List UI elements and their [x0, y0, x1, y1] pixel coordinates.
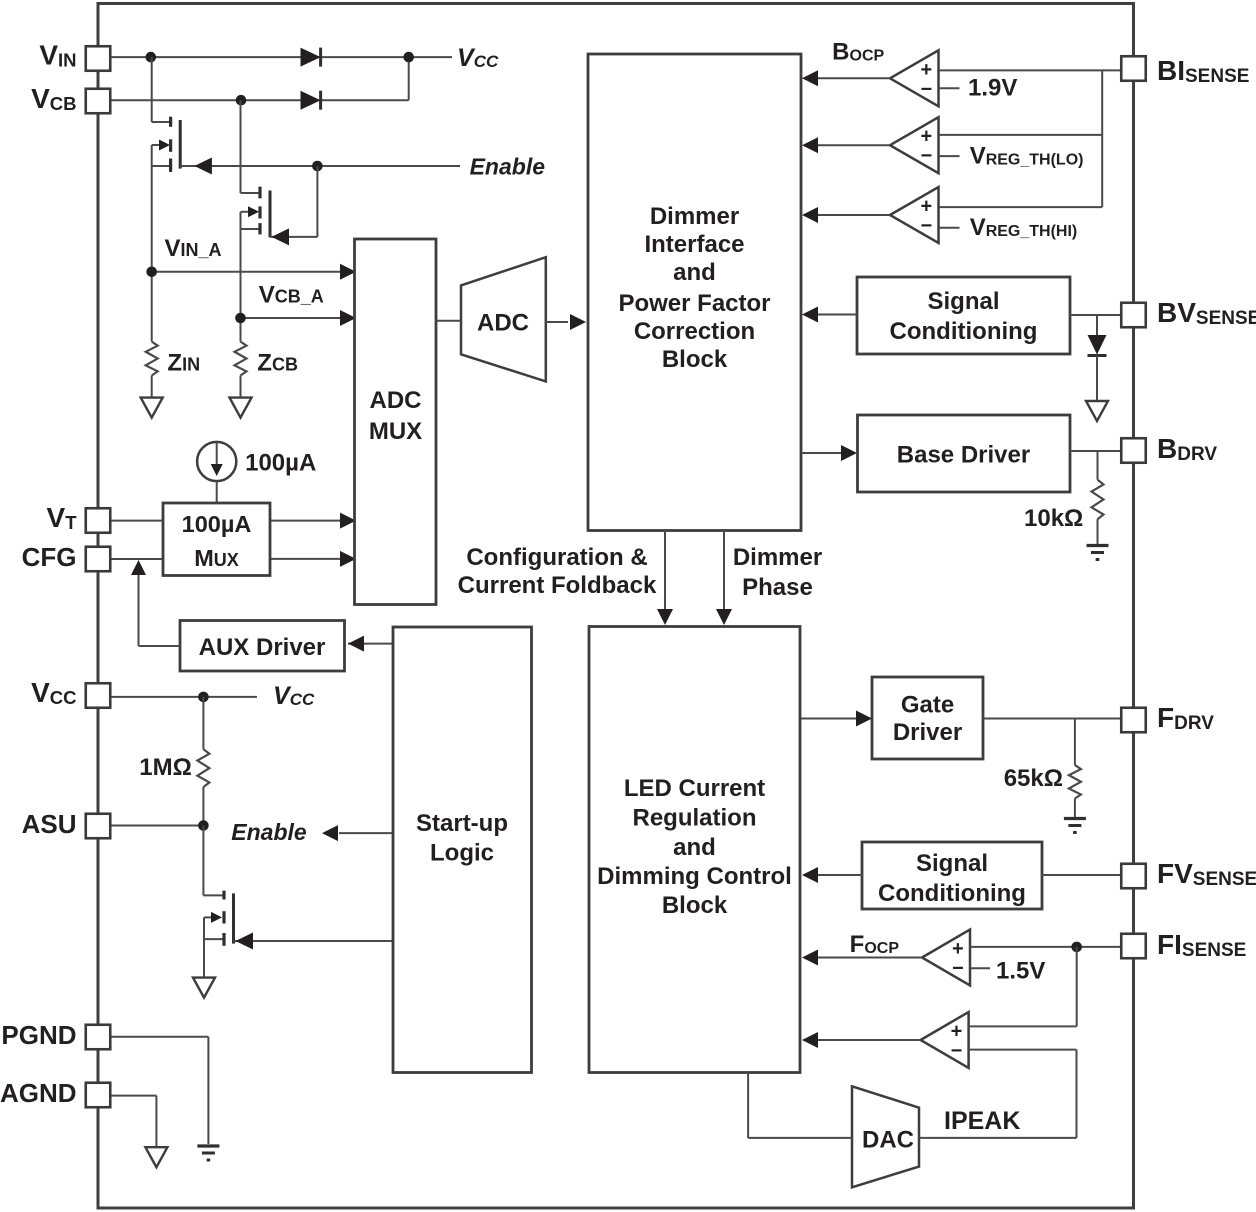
svg-text:ADC: ADC: [370, 387, 422, 414]
svg-text:−: −: [921, 215, 933, 237]
svg-text:PGND: PGND: [1, 1020, 76, 1050]
svg-text:1.5V: 1.5V: [996, 958, 1045, 985]
svg-text:Correction: Correction: [634, 318, 755, 345]
svg-text:AUX Driver: AUX Driver: [199, 634, 326, 661]
svg-text:−: −: [921, 78, 933, 100]
svg-text:Regulation: Regulation: [633, 805, 757, 832]
svg-text:Logic: Logic: [430, 840, 494, 867]
svg-text:AGND: AGND: [0, 1078, 77, 1108]
svg-text:Dimmer: Dimmer: [650, 203, 739, 230]
svg-text:DAC: DAC: [862, 1127, 914, 1154]
svg-text:Base Driver: Base Driver: [897, 442, 1030, 469]
svg-text:Start-up: Start-up: [416, 810, 508, 837]
svg-text:CFG: CFG: [22, 542, 77, 572]
svg-text:65kΩ: 65kΩ: [1004, 765, 1063, 792]
svg-text:Configuration &: Configuration &: [466, 544, 647, 571]
svg-text:100µA: 100µA: [182, 511, 252, 537]
svg-text:Conditioning: Conditioning: [878, 880, 1026, 907]
svg-text:−: −: [952, 958, 964, 980]
svg-text:Interface: Interface: [644, 231, 744, 258]
svg-text:and: and: [673, 834, 716, 861]
svg-text:1MΩ: 1MΩ: [139, 754, 192, 781]
svg-text:Current Foldback: Current Foldback: [458, 572, 657, 599]
svg-text:Dimmer: Dimmer: [733, 544, 822, 571]
svg-text:ZCB: ZCB: [257, 350, 298, 377]
svg-text:ZIN: ZIN: [167, 350, 200, 377]
svg-text:Enable: Enable: [231, 819, 307, 845]
svg-text:ASU: ASU: [22, 809, 77, 839]
svg-text:Power Factor: Power Factor: [618, 290, 770, 317]
svg-text:−: −: [921, 145, 933, 167]
svg-text:IPEAK: IPEAK: [944, 1107, 1020, 1135]
svg-text:10kΩ: 10kΩ: [1024, 505, 1083, 532]
svg-text:Conditioning: Conditioning: [890, 318, 1038, 345]
svg-text:−: −: [951, 1040, 963, 1062]
svg-text:100µA: 100µA: [245, 450, 316, 477]
svg-text:Block: Block: [662, 346, 728, 373]
svg-text:Driver: Driver: [893, 719, 962, 746]
svg-text:Dimming Control: Dimming Control: [597, 863, 792, 890]
svg-text:1.9V: 1.9V: [968, 75, 1017, 102]
svg-text:VIN_A: VIN_A: [165, 235, 222, 262]
svg-text:Phase: Phase: [742, 574, 813, 601]
svg-text:LED Current: LED Current: [624, 775, 765, 802]
svg-text:Signal: Signal: [916, 850, 988, 877]
svg-text:VCB_A: VCB_A: [259, 282, 324, 309]
svg-text:MUX: MUX: [369, 418, 422, 445]
svg-text:ADC: ADC: [477, 310, 529, 337]
svg-text:Signal: Signal: [927, 288, 999, 315]
svg-text:Gate: Gate: [901, 692, 954, 719]
svg-text:Block: Block: [662, 892, 728, 919]
svg-text:and: and: [673, 259, 716, 286]
svg-text:Enable: Enable: [470, 154, 546, 180]
